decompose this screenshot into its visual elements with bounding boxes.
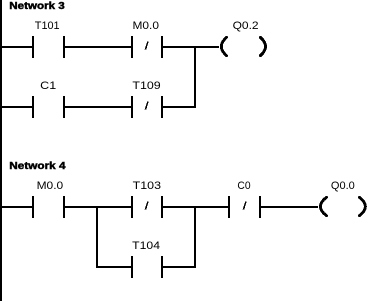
coil Q0.2 xyxy=(221,20,265,56)
node: branch down to T104 xyxy=(96,206,98,268)
contact C1 xyxy=(32,80,65,118)
svg-text:Network 3: Network 3 xyxy=(9,1,65,12)
wire C0 to coil Q0.0 xyxy=(261,206,318,208)
svg-text:T103: T103 xyxy=(133,180,161,192)
contact C0 (NC) xyxy=(228,180,261,218)
svg-text:T109: T109 xyxy=(132,80,160,92)
svg-text:Q0.0: Q0.0 xyxy=(331,180,355,192)
svg-text:C0: C0 xyxy=(237,180,250,192)
contact T104 xyxy=(131,240,163,278)
wire T101 to M0.0 xyxy=(64,46,131,48)
wire T109 to junction xyxy=(163,106,196,108)
node: junction of rung 2 into rung 1 xyxy=(194,46,196,108)
wire rail to T101 xyxy=(0,46,32,48)
contact M0.0 (network 4) xyxy=(32,180,65,218)
contact T101 xyxy=(32,20,65,58)
wire C1 to T109 xyxy=(64,106,131,108)
svg-text:M0.0: M0.0 xyxy=(37,180,64,192)
wire M0.0 to coil Q0.2 xyxy=(163,46,219,48)
wire M0.0 to T103 (through branch node) xyxy=(64,206,131,208)
svg-text:C1: C1 xyxy=(40,80,56,92)
svg-text:T101: T101 xyxy=(35,20,60,32)
wire branch to T104 xyxy=(96,266,131,268)
contact T103 (NC) xyxy=(131,180,163,218)
svg-text:Network 4: Network 4 xyxy=(9,161,66,172)
svg-text:M0.0: M0.0 xyxy=(133,20,160,32)
svg-text:Q0.2: Q0.2 xyxy=(233,20,259,32)
node: join of T104 branch xyxy=(194,206,196,268)
svg-text:T104: T104 xyxy=(132,240,160,252)
wire rail to M0.0 xyxy=(0,206,32,208)
contact M0.0 (NC) xyxy=(131,20,163,58)
wire T104 to join xyxy=(163,266,196,268)
coil Q0.0 xyxy=(320,180,365,216)
wire rail to C1 xyxy=(0,106,32,108)
wire T103 to C0 (through join node) xyxy=(163,206,228,208)
left power rail xyxy=(0,0,2,301)
contact T109 (NC) xyxy=(131,80,163,118)
